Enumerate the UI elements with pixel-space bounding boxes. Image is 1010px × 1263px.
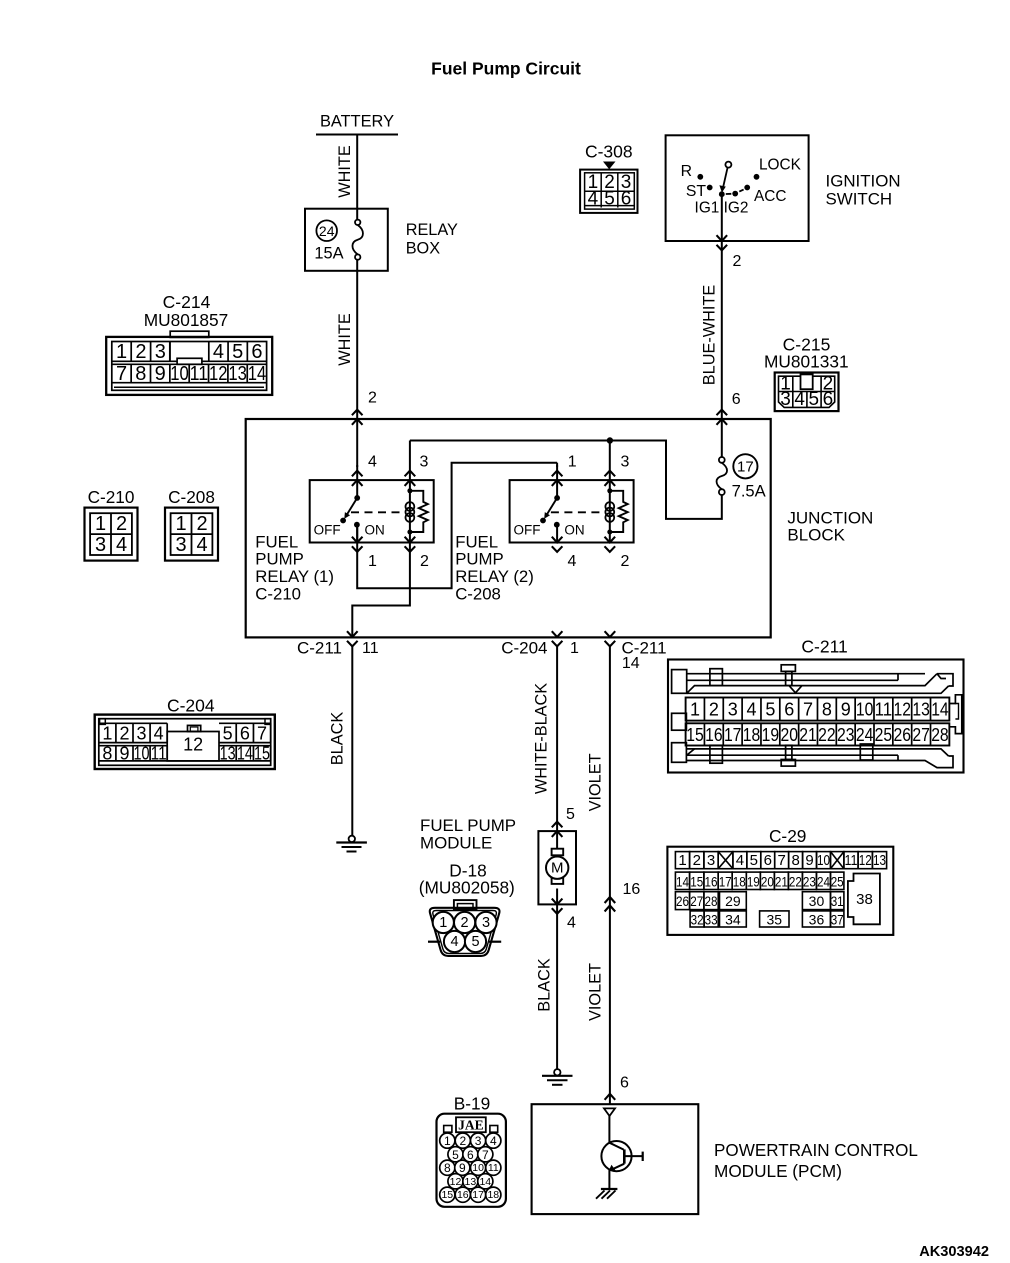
connector C-210 [85, 487, 138, 561]
wire relay K1 pin1 to relay K2 pin1 [357, 463, 557, 589]
svg-text:3: 3 [620, 454, 629, 471]
svg-text:6: 6 [620, 1075, 629, 1092]
relay K2: fuel pump relay (2) C-208 internals [510, 441, 634, 552]
svg-text:5: 5 [604, 188, 615, 209]
node A (coil feed junction) [607, 437, 613, 443]
svg-text:21: 21 [775, 873, 788, 889]
svg-text:6: 6 [823, 389, 834, 410]
svg-text:PUMP: PUMP [455, 550, 503, 569]
svg-text:18: 18 [743, 725, 761, 745]
relay box with fuse 24 15A [305, 209, 458, 271]
wire relay box to junction block (WHITE) pin 2 [336, 271, 377, 419]
svg-text:9: 9 [155, 363, 166, 385]
svg-text:7: 7 [116, 363, 127, 385]
svg-text:1: 1 [175, 513, 186, 535]
svg-text:4: 4 [794, 389, 805, 410]
svg-text:18: 18 [733, 873, 746, 889]
svg-text:1: 1 [102, 724, 112, 744]
svg-text:28: 28 [705, 893, 718, 909]
svg-text:2: 2 [420, 553, 429, 570]
svg-text:4: 4 [154, 724, 164, 744]
svg-text:FUEL: FUEL [455, 532, 498, 551]
svg-text:4: 4 [196, 534, 207, 556]
svg-text:9: 9 [805, 852, 813, 869]
svg-text:C-210: C-210 [88, 487, 135, 507]
svg-text:4: 4 [747, 700, 757, 720]
svg-text:2: 2 [693, 852, 701, 869]
svg-text:2: 2 [196, 513, 207, 535]
svg-text:6: 6 [621, 188, 632, 209]
svg-text:16: 16 [705, 873, 718, 889]
svg-text:5: 5 [471, 934, 479, 950]
svg-text:19: 19 [747, 873, 760, 889]
svg-text:OFF: OFF [514, 522, 541, 537]
svg-text:RELAY: RELAY [406, 221, 458, 239]
svg-text:28: 28 [931, 725, 949, 745]
svg-text:12: 12 [209, 363, 228, 385]
svg-text:14: 14 [479, 1176, 491, 1188]
wire junction top to relay K1 pin 4 [356, 419, 358, 467]
svg-text:3: 3 [420, 454, 429, 471]
svg-text:FUEL PUMP: FUEL PUMP [420, 816, 516, 835]
svg-text:20: 20 [780, 725, 798, 745]
svg-text:8: 8 [822, 700, 832, 720]
svg-text:10: 10 [856, 700, 874, 720]
svg-text:MODULE: MODULE [420, 833, 492, 852]
svg-text:7: 7 [803, 700, 813, 720]
svg-text:7: 7 [257, 724, 267, 744]
svg-text:35: 35 [767, 911, 783, 927]
svg-text:3: 3 [95, 534, 106, 556]
svg-text:RELAY (2): RELAY (2) [455, 567, 534, 586]
svg-text:4: 4 [368, 454, 377, 471]
svg-text:13: 13 [228, 363, 247, 385]
connector C-214 MU801857 [106, 292, 272, 395]
svg-text:FUEL: FUEL [255, 532, 298, 551]
svg-text:ST: ST [686, 183, 707, 200]
svg-text:17: 17 [737, 458, 754, 475]
svg-text:29: 29 [725, 893, 741, 909]
PCM entry triangle (pin 6) [604, 1108, 615, 1116]
svg-text:22: 22 [789, 873, 802, 889]
svg-text:9: 9 [841, 700, 851, 720]
svg-text:10: 10 [817, 852, 830, 869]
svg-text:16: 16 [623, 881, 641, 898]
svg-text:3: 3 [728, 700, 738, 720]
svg-text:25: 25 [875, 725, 893, 745]
svg-text:1: 1 [95, 513, 106, 535]
fuse 17 7.5A [717, 419, 767, 500]
svg-text:15: 15 [441, 1189, 453, 1201]
svg-text:3: 3 [137, 724, 147, 744]
junction block [246, 419, 874, 637]
svg-text:27: 27 [690, 893, 703, 909]
svg-text:6: 6 [251, 341, 262, 363]
svg-text:1: 1 [444, 1134, 451, 1148]
wire battery to relay box (WHITE) [336, 135, 357, 209]
svg-text:IGNITION: IGNITION [826, 172, 901, 191]
svg-text:17: 17 [719, 873, 732, 889]
svg-text:1: 1 [116, 341, 127, 363]
svg-text:R: R [681, 163, 692, 180]
svg-text:4: 4 [490, 1134, 497, 1148]
svg-text:12: 12 [450, 1176, 462, 1188]
svg-text:3: 3 [475, 1134, 482, 1148]
svg-text:BLUE-WHITE: BLUE-WHITE [701, 285, 719, 386]
svg-text:2: 2 [368, 390, 377, 407]
svg-text:C-308: C-308 [585, 142, 633, 162]
svg-text:Fuel Pump Circuit: Fuel Pump Circuit [431, 59, 581, 79]
svg-text:4: 4 [213, 341, 224, 363]
svg-text:BATTERY: BATTERY [320, 113, 394, 131]
svg-text:POWERTRAIN CONTROL: POWERTRAIN CONTROL [714, 1141, 918, 1160]
svg-text:ON: ON [564, 522, 584, 537]
svg-text:4: 4 [116, 534, 127, 556]
svg-text:18: 18 [487, 1189, 499, 1201]
svg-text:38: 38 [856, 891, 873, 908]
svg-text:1: 1 [439, 915, 447, 931]
svg-text:2: 2 [620, 553, 629, 570]
svg-text:C-211: C-211 [801, 637, 847, 657]
fuel pump module caption [419, 816, 516, 898]
svg-text:2: 2 [119, 724, 129, 744]
svg-text:6: 6 [467, 1148, 474, 1162]
powertrain control module (PCM) box [532, 1104, 918, 1214]
svg-text:OFF: OFF [314, 522, 341, 537]
svg-text:17: 17 [724, 725, 742, 745]
svg-text:12: 12 [859, 852, 872, 869]
svg-text:WHITE: WHITE [336, 313, 354, 366]
svg-text:C-208: C-208 [168, 487, 215, 507]
fuel pump module motor M [538, 822, 576, 914]
svg-text:12: 12 [894, 700, 912, 720]
svg-text:VIOLET: VIOLET [587, 753, 605, 811]
document number [919, 1244, 989, 1260]
svg-text:4: 4 [568, 553, 577, 570]
wire fuse 17 to relay coils [410, 441, 722, 519]
svg-text:RELAY (1): RELAY (1) [255, 567, 334, 586]
connector C-211 [668, 637, 964, 773]
svg-text:31: 31 [831, 893, 844, 909]
svg-text:12: 12 [183, 735, 203, 755]
svg-text:34: 34 [725, 911, 741, 927]
svg-text:C-29: C-29 [769, 826, 806, 846]
svg-text:3: 3 [155, 341, 166, 363]
wire to relay K2 pin 1 [556, 463, 558, 467]
svg-text:11: 11 [845, 852, 858, 869]
svg-text:(MU802058): (MU802058) [419, 878, 515, 898]
svg-text:AK303942: AK303942 [919, 1244, 989, 1260]
wire C-204/1 to fuel pump module (WHITE-BLACK) [533, 646, 576, 831]
ground G1 [336, 836, 367, 852]
svg-text:5: 5 [566, 806, 575, 823]
svg-text:6: 6 [764, 852, 772, 869]
svg-text:BOX: BOX [406, 240, 441, 258]
svg-text:7.5A: 7.5A [732, 481, 767, 500]
connector C-204 [95, 695, 275, 769]
svg-text:4: 4 [736, 852, 744, 869]
node: junction block entry arrows [352, 410, 727, 425]
svg-text:ACC: ACC [754, 188, 787, 205]
svg-text:1: 1 [678, 852, 686, 869]
svg-text:25: 25 [831, 873, 844, 889]
svg-text:24: 24 [856, 725, 874, 745]
svg-text:24: 24 [817, 873, 830, 889]
svg-text:36: 36 [809, 911, 825, 927]
svg-text:5: 5 [232, 341, 243, 363]
ignition switch [666, 135, 901, 241]
svg-text:1: 1 [690, 700, 700, 720]
svg-text:2: 2 [135, 341, 146, 363]
svg-text:BLACK: BLACK [328, 712, 346, 766]
svg-text:2: 2 [461, 915, 469, 931]
wire ignition switch IG1 to junction block (BLUE-WHITE) [701, 194, 742, 419]
svg-text:15: 15 [690, 873, 703, 889]
svg-text:24: 24 [319, 223, 335, 239]
svg-text:4: 4 [450, 934, 458, 950]
transistor Q1 (PCM driver) [601, 1116, 642, 1189]
svg-text:8: 8 [444, 1161, 451, 1175]
svg-text:2: 2 [709, 700, 719, 720]
svg-text:14: 14 [676, 873, 689, 889]
svg-text:23: 23 [803, 873, 816, 889]
svg-text:WHITE-BLACK: WHITE-BLACK [533, 683, 551, 794]
svg-text:14: 14 [931, 700, 949, 720]
relay K2 pin labels [568, 454, 630, 571]
svg-text:1: 1 [368, 553, 377, 570]
relay K1 caption [255, 532, 334, 603]
svg-text:14: 14 [248, 363, 267, 385]
svg-text:C-210: C-210 [255, 584, 301, 603]
svg-text:26: 26 [894, 725, 912, 745]
wire fuel pump to ground (BLACK) [535, 904, 576, 1069]
svg-text:5: 5 [452, 1148, 459, 1162]
wire relay K1 pin2 to C-211 pin 11 [352, 543, 410, 638]
svg-text:MU801857: MU801857 [144, 310, 229, 330]
svg-text:3: 3 [175, 534, 186, 556]
svg-text:5: 5 [223, 724, 233, 744]
svg-text:26: 26 [676, 893, 689, 909]
svg-text:C-208: C-208 [455, 584, 501, 603]
connector C-208 [165, 487, 218, 561]
relay K2 caption [455, 532, 534, 603]
connector D-18 [428, 900, 501, 956]
svg-text:BLOCK: BLOCK [787, 526, 845, 545]
svg-text:5: 5 [765, 700, 775, 720]
svg-text:C-211: C-211 [297, 639, 342, 658]
svg-text:11: 11 [488, 1162, 499, 1174]
svg-text:3: 3 [482, 915, 490, 931]
svg-text:11: 11 [362, 640, 379, 657]
svg-text:2: 2 [733, 253, 742, 270]
svg-text:14: 14 [622, 655, 640, 672]
svg-text:9: 9 [459, 1161, 466, 1175]
svg-text:20: 20 [761, 873, 774, 889]
svg-text:11: 11 [190, 363, 209, 385]
svg-text:11: 11 [875, 700, 893, 720]
svg-text:8: 8 [135, 363, 146, 385]
svg-text:1: 1 [568, 454, 577, 471]
svg-text:13: 13 [465, 1176, 477, 1188]
wire C-211/14 to PCM (VIOLET) [587, 646, 641, 1105]
svg-text:7: 7 [482, 1148, 489, 1162]
svg-text:27: 27 [912, 725, 930, 745]
svg-text:MU801331: MU801331 [764, 351, 849, 371]
svg-text:23: 23 [837, 725, 855, 745]
ground G2 [542, 1069, 573, 1085]
svg-text:2: 2 [116, 513, 127, 535]
svg-text:32: 32 [691, 911, 704, 927]
svg-text:MODULE (PCM): MODULE (PCM) [714, 1161, 842, 1181]
connector C-308 [580, 142, 637, 213]
battery B+ [316, 113, 398, 135]
svg-text:37: 37 [831, 911, 844, 927]
svg-text:10: 10 [472, 1162, 484, 1174]
svg-text:JAE: JAE [458, 1117, 484, 1132]
connector C-29 [667, 826, 893, 935]
svg-text:21: 21 [799, 725, 817, 745]
svg-text:19: 19 [762, 725, 780, 745]
svg-text:1: 1 [570, 640, 579, 657]
connector B-19 [437, 1094, 506, 1207]
svg-text:16: 16 [705, 725, 723, 745]
svg-text:6: 6 [732, 391, 741, 408]
svg-text:ON: ON [364, 522, 384, 537]
svg-text:WHITE: WHITE [336, 145, 354, 198]
svg-text:5: 5 [809, 389, 820, 410]
svg-text:16: 16 [457, 1189, 469, 1201]
svg-text:C-204: C-204 [167, 695, 215, 715]
ground G3 (PCM internal) [596, 1189, 617, 1199]
svg-text:30: 30 [809, 893, 825, 909]
svg-text:22: 22 [818, 725, 836, 745]
svg-text:B-19: B-19 [454, 1094, 491, 1114]
svg-text:SWITCH: SWITCH [826, 190, 893, 209]
junction block bottom crossings C-211/11, C-204/1, C-211/14 [297, 631, 667, 672]
svg-text:VIOLET: VIOLET [587, 963, 605, 1021]
svg-text:3: 3 [780, 389, 791, 410]
svg-text:BLACK: BLACK [535, 958, 553, 1012]
svg-text:5: 5 [750, 852, 758, 869]
svg-text:7: 7 [778, 852, 786, 869]
svg-text:2: 2 [459, 1134, 466, 1148]
svg-text:C-204: C-204 [501, 639, 547, 658]
relay K1 pin labels [368, 454, 429, 571]
svg-text:15: 15 [686, 725, 704, 745]
connector C-215 MU801331 [764, 335, 849, 412]
svg-text:3: 3 [707, 852, 715, 869]
relay K1: fuel pump relay (1) C-210 internals [310, 441, 434, 552]
svg-text:4: 4 [588, 188, 599, 209]
svg-text:15A: 15A [314, 244, 343, 262]
title [431, 59, 581, 79]
svg-text:17: 17 [472, 1189, 484, 1201]
svg-text:6: 6 [240, 724, 250, 744]
wire C-211/11 to ground (BLACK) [328, 646, 352, 835]
svg-text:10: 10 [170, 363, 189, 385]
svg-text:8: 8 [791, 852, 799, 869]
svg-text:13: 13 [873, 852, 886, 869]
svg-text:13: 13 [912, 700, 930, 720]
svg-text:LOCK: LOCK [759, 157, 802, 174]
svg-text:4: 4 [567, 915, 576, 932]
svg-text:33: 33 [705, 911, 718, 927]
svg-text:6: 6 [784, 700, 794, 720]
svg-text:PUMP: PUMP [255, 550, 303, 569]
svg-text:M: M [551, 860, 564, 877]
